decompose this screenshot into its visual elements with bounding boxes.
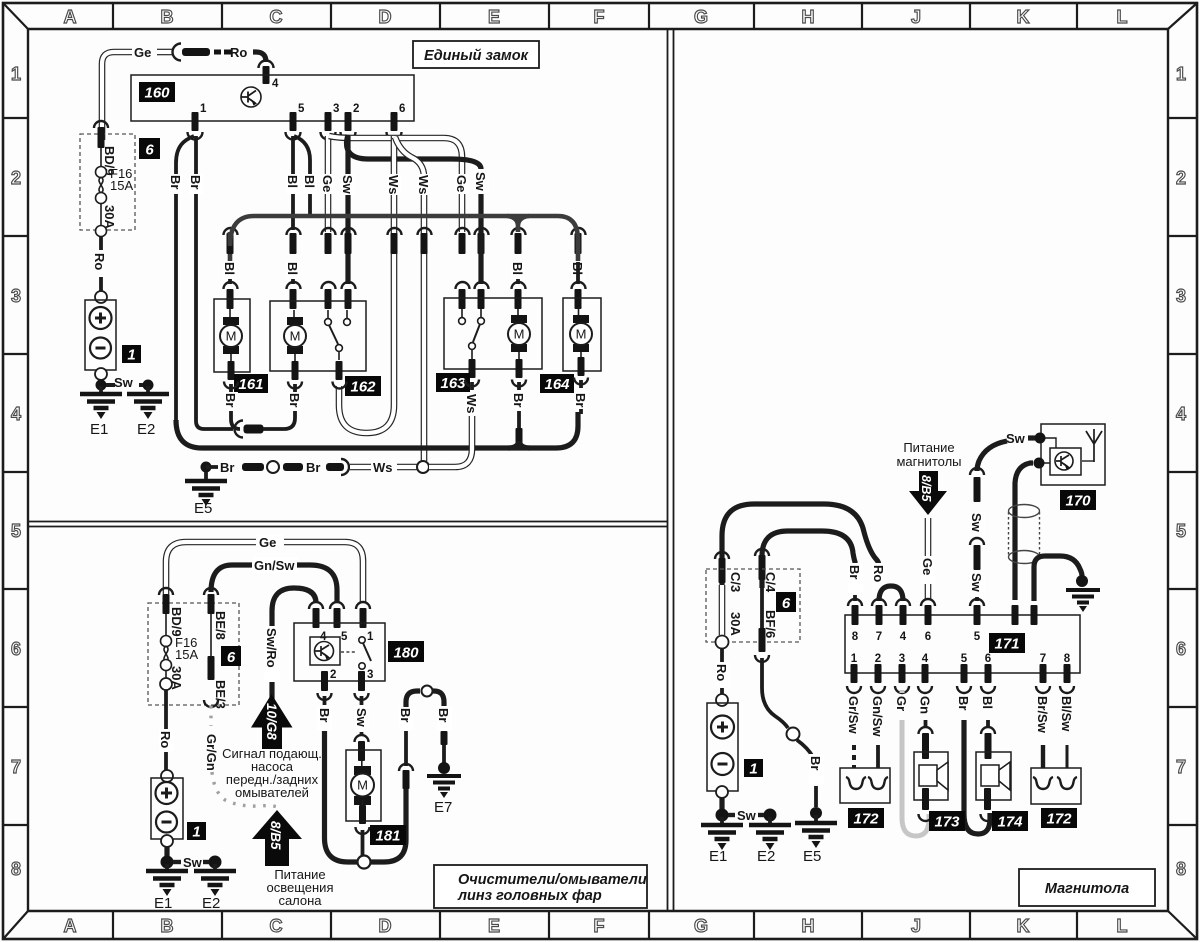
svg-text:164: 164 — [544, 376, 570, 393]
wire Br S-curve to E5 — [762, 658, 788, 728]
svg-text:8/B5: 8/B5 — [919, 475, 933, 502]
svg-text:G: G — [694, 7, 708, 27]
tag 1 — [744, 759, 763, 777]
ground E5 right panel — [810, 807, 822, 819]
svg-text:1: 1 — [1176, 64, 1186, 84]
svg-text:омывателей: омывателей — [235, 785, 309, 800]
title box Единый замок — [413, 41, 539, 68]
speaker plug 172 right — [1031, 768, 1081, 804]
tag 6 — [139, 138, 160, 159]
coax cylinder — [1009, 505, 1040, 564]
svg-text:E1: E1 — [90, 421, 108, 438]
horizontal panel divider left half (double) — [28, 522, 667, 527]
svg-text:Br: Br — [306, 460, 320, 475]
ground E2 right panel — [764, 809, 777, 822]
svg-text:J: J — [911, 916, 921, 936]
white wire to 163 common — [429, 416, 472, 467]
svg-text:4: 4 — [900, 631, 907, 643]
jumper pin7-pin4 — [879, 586, 903, 601]
wire Ws white straight from pin6 — [339, 136, 394, 433]
svg-text:Bl: Bl — [222, 262, 237, 275]
svg-text:Bl/Sw: Bl/Sw — [1059, 696, 1074, 732]
connector circle — [267, 461, 279, 473]
svg-text:Sw: Sw — [340, 175, 355, 195]
label row y177 — [169, 174, 183, 194]
wire pin2 — [876, 745, 880, 768]
inline connector arc+bar y429 — [235, 421, 244, 438]
wire C3 white — [719, 585, 726, 635]
svg-text:Gn/Sw: Gn/Sw — [870, 696, 885, 737]
svg-text:6: 6 — [227, 649, 236, 666]
svg-text:E5: E5 — [194, 500, 212, 517]
svg-text:6: 6 — [985, 653, 991, 665]
svg-text:Ge: Ge — [259, 535, 276, 550]
pin 5 — [290, 112, 297, 131]
svg-text:H: H — [802, 7, 815, 27]
connector arcs C/3 C/4 — [715, 552, 729, 559]
svg-text:Питание: Питание — [903, 440, 954, 455]
svg-text:Sw: Sw — [114, 375, 134, 390]
svg-text:Bl: Bl — [302, 175, 317, 188]
svg-text:F: F — [594, 7, 605, 27]
antenna unit 170 — [1041, 424, 1105, 485]
svg-text:M: M — [290, 329, 301, 344]
svg-text:Ws: Ws — [464, 394, 479, 414]
wire pin7 — [1041, 745, 1045, 768]
ground E1 top — [98, 380, 103, 386]
connector strip 171 — [845, 615, 1080, 673]
svg-text:BD/9: BD/9 — [169, 607, 184, 637]
svg-text:K: K — [1017, 916, 1030, 936]
wire pin1 dashed — [852, 745, 856, 768]
svg-text:Bl: Bl — [980, 696, 995, 709]
svg-text:B: B — [161, 916, 174, 936]
connector into fuse col — [94, 121, 108, 128]
svg-text:Br: Br — [511, 393, 526, 407]
svg-text:3: 3 — [367, 669, 373, 681]
svg-text:M: M — [576, 327, 587, 342]
svg-text:4: 4 — [272, 78, 279, 90]
svg-text:Gn/Sw: Gn/Sw — [254, 558, 295, 573]
svg-text:Ws: Ws — [386, 175, 401, 195]
box 164 — [563, 298, 601, 371]
wire Bl straight from pin5 — [291, 136, 295, 230]
svg-text:Очистители/омыватели: Очистители/омыватели — [458, 872, 647, 888]
svg-text:5: 5 — [1176, 521, 1186, 541]
svg-text:E: E — [488, 7, 500, 27]
motor M in 161 — [220, 317, 242, 354]
ground E7 — [438, 762, 450, 774]
wire Br left branch from pin1 — [176, 136, 202, 448]
svg-text:C/3: C/3 — [728, 572, 743, 592]
svg-text:5: 5 — [974, 631, 981, 643]
short stubs below arcs — [231, 380, 581, 392]
wire Sw from pin3 — [360, 696, 364, 705]
title box Очистители — [434, 865, 647, 908]
wire thin links into boxes — [230, 307, 581, 362]
connector arcs under motor boxes — [224, 382, 238, 389]
svg-text:2: 2 — [330, 669, 336, 681]
label Bl row y263 — [223, 261, 237, 280]
svg-text:A: A — [64, 7, 77, 27]
svg-text:1: 1 — [367, 631, 374, 643]
svg-text:7: 7 — [11, 757, 21, 777]
tag 161 — [234, 374, 268, 393]
white wire Ws horizontal — [350, 464, 371, 471]
right band row dividers — [1168, 118, 1197, 825]
pin 4 stub — [263, 66, 270, 84]
wire Ws white branch from pin6 — [395, 137, 424, 461]
svg-text:G: G — [694, 916, 708, 936]
wire Ge white branch from pin3 — [329, 136, 462, 232]
svg-text:2: 2 — [1176, 168, 1186, 188]
svg-text:Sw: Sw — [737, 808, 757, 823]
bottom band cell dividers — [113, 911, 1077, 939]
svg-text:Gr: Gr — [894, 696, 909, 711]
svg-text:A: A — [64, 916, 77, 936]
ground E1 bottom panel — [164, 847, 169, 858]
BE column connector — [204, 588, 218, 595]
svg-text:Br: Br — [168, 175, 183, 189]
svg-text:15A: 15A — [175, 647, 198, 662]
label Br row below boxes — [224, 392, 238, 411]
wire Sw/Ro thick U — [272, 588, 316, 702]
svg-text:180: 180 — [393, 645, 419, 662]
svg-text:Gn: Gn — [918, 696, 933, 714]
svg-text:E: E — [488, 916, 500, 936]
svg-text:Br/Sw: Br/Sw — [1035, 696, 1050, 734]
tag 6 — [776, 592, 796, 612]
svg-text:5: 5 — [961, 653, 968, 665]
svg-text:BE/8: BE/8 — [213, 611, 228, 640]
tag 181 — [370, 825, 406, 845]
svg-text:Br: Br — [220, 460, 234, 475]
vertical panel divider (double) — [668, 29, 674, 911]
fuse F16 bottom — [165, 614, 167, 636]
wire Bl branch from pin5 — [294, 136, 310, 217]
svg-text:линз головных фар: линз головных фар — [457, 888, 602, 904]
switch in 162 — [325, 319, 351, 360]
pin3 stub — [358, 671, 365, 691]
svg-text:6: 6 — [1176, 639, 1186, 659]
transistor sub-box in 180 — [310, 637, 340, 665]
svg-text:Ge: Ge — [454, 175, 469, 192]
pin 1 — [192, 112, 199, 131]
battery 1 top panel — [85, 291, 116, 380]
wire 164 Br drop — [579, 409, 583, 414]
motor M in 164 — [570, 315, 592, 352]
svg-text:Ro: Ro — [92, 253, 107, 270]
ground E1 right panel — [719, 798, 724, 810]
svg-text:2: 2 — [875, 653, 881, 665]
thick wire to radio ground — [1034, 556, 1082, 601]
wire thin links 181 — [361, 760, 364, 806]
main Br bus thick y448 — [176, 412, 578, 448]
svg-text:Br: Br — [287, 393, 302, 407]
svg-text:3: 3 — [333, 103, 339, 115]
svg-text:Ge: Ge — [320, 175, 335, 192]
svg-text:171: 171 — [994, 636, 1019, 653]
connector — [970, 538, 984, 545]
svg-text:5: 5 — [341, 631, 348, 643]
wire Ro down — [99, 236, 103, 250]
ground E2 top — [143, 380, 154, 391]
svg-text:1: 1 — [749, 761, 757, 778]
big loop Ro (outer) from C/3 to pin7 — [722, 504, 879, 588]
svg-text:160: 160 — [144, 85, 170, 102]
svg-text:181: 181 — [375, 828, 400, 845]
wire Ge white top loop — [166, 542, 256, 594]
connector arc pin4 — [259, 61, 274, 68]
svg-text:Br: Br — [573, 393, 588, 407]
wire Ge white — [925, 518, 932, 599]
svg-text:Ge: Ge — [134, 45, 151, 60]
wire Ro — [164, 690, 168, 729]
battery 1 bottom panel — [151, 770, 183, 847]
svg-text:Br: Br — [956, 696, 971, 710]
pin 3 — [325, 112, 332, 131]
svg-text:4: 4 — [11, 404, 21, 424]
svg-text:M: M — [514, 327, 525, 342]
speaker 173 — [914, 752, 948, 800]
svg-text:1: 1 — [127, 347, 135, 364]
wire Ro down — [720, 649, 724, 662]
wire Gn/Sw thick — [211, 565, 252, 592]
svg-text:M: M — [226, 329, 237, 344]
svg-text:Br: Br — [188, 175, 203, 189]
svg-text:E1: E1 — [154, 895, 172, 912]
svg-text:D: D — [379, 916, 392, 936]
svg-text:6: 6 — [145, 142, 154, 159]
tag 163 — [436, 373, 470, 392]
tag 1 — [122, 345, 141, 363]
inline connector on x406 — [399, 764, 413, 771]
svg-text:Ws: Ws — [416, 175, 431, 195]
switch in 180 — [359, 637, 365, 643]
junction circle under 181 — [358, 856, 371, 869]
inline connectors row y231 — [224, 228, 586, 254]
switch in 163 — [459, 318, 485, 360]
svg-text:K: K — [1017, 7, 1030, 27]
wire pin8 — [1066, 745, 1069, 768]
wire Br pin5 thick — [964, 720, 990, 834]
svg-text:Sw: Sw — [969, 573, 984, 593]
svg-text:172: 172 — [1046, 811, 1072, 828]
svg-text:C: C — [270, 7, 283, 27]
svg-text:10/G8: 10/G8 — [264, 703, 279, 740]
pin2 stub — [321, 671, 328, 691]
svg-text:M: M — [357, 778, 368, 793]
svg-text:1: 1 — [851, 653, 858, 665]
wire dashes — [214, 50, 221, 55]
fuse dashed box bottom panel — [148, 603, 239, 705]
wires from labels into boxes y280-300 — [230, 262, 578, 284]
connectors into box tops — [224, 282, 586, 309]
fuse dashed box top panel — [80, 134, 135, 230]
junction circle x423 — [417, 461, 429, 473]
wire Bl pin6 — [986, 720, 990, 726]
wire 163 Br drop with stub — [517, 411, 521, 430]
svg-text:F: F — [594, 916, 605, 936]
wire Ge white right part — [284, 542, 363, 603]
svg-text:8: 8 — [11, 859, 21, 879]
wire Br straight from pin1 — [196, 136, 233, 429]
top pins 171 — [848, 599, 1038, 643]
fuse circle — [716, 636, 729, 649]
transistor sub-box 170 — [1050, 448, 1081, 475]
svg-text:5: 5 — [298, 103, 305, 115]
svg-text:173: 173 — [934, 814, 960, 831]
svg-text:162: 162 — [350, 379, 376, 396]
arrow 8/B5 bottom — [252, 810, 302, 839]
bus Bl horizontal y216 — [230, 216, 578, 262]
tag 160 — [139, 82, 175, 102]
wire — [157, 49, 172, 56]
arch with circle to E7 — [406, 691, 420, 707]
ground E5 — [204, 472, 208, 479]
svg-text:174: 174 — [997, 814, 1023, 831]
arrow 10/G8 — [251, 694, 293, 728]
motor M in 163 — [508, 315, 530, 352]
svg-text:Ge: Ge — [920, 558, 935, 575]
svg-text:3: 3 — [899, 653, 905, 665]
thick wire from 170 pin2 down — [1015, 463, 1033, 600]
wire Sw thick branch from pin2 — [347, 135, 481, 169]
big loop Br (inner) from C/4 to pin8 — [762, 531, 855, 588]
svg-text:Br: Br — [317, 708, 332, 722]
tag 180 — [388, 641, 424, 662]
svg-text:Bl: Bl — [510, 262, 525, 275]
svg-text:8: 8 — [852, 631, 859, 643]
tag 164 — [540, 374, 574, 393]
svg-text:2: 2 — [11, 168, 21, 188]
svg-text:C: C — [270, 916, 283, 936]
svg-text:1: 1 — [200, 103, 207, 115]
wire Ro (thick) — [253, 52, 266, 62]
svg-text:170: 170 — [1065, 493, 1091, 510]
svg-text:8: 8 — [1064, 653, 1071, 665]
svg-text:Sw/Ro: Sw/Ro — [264, 628, 279, 668]
svg-text:7: 7 — [1176, 757, 1186, 777]
wire C4 black — [760, 583, 764, 630]
tag 6 — [221, 646, 241, 666]
dashed fuse box right panel — [706, 569, 800, 642]
svg-text:E5: E5 — [803, 848, 821, 865]
ground E5 junction dot — [201, 462, 212, 473]
svg-text:Sw: Sw — [473, 172, 488, 192]
bus drop x518 — [507, 216, 529, 232]
top band cell dividers — [113, 3, 1077, 29]
pin 6 — [391, 112, 398, 131]
svg-text:15A: 15A — [110, 178, 133, 193]
svg-text:1: 1 — [192, 824, 200, 841]
svg-text:E2: E2 — [757, 848, 775, 865]
motor box 181 — [346, 750, 381, 821]
wire Gn pin4 — [924, 720, 928, 726]
tag 162 — [345, 376, 381, 396]
wire Sw vertical x481 lower — [478, 194, 483, 284]
speaker 174 — [976, 752, 1011, 800]
tag 1 — [187, 822, 206, 840]
op-unit U160 box — [131, 75, 414, 121]
antenna symbol — [1086, 429, 1102, 462]
svg-text:магнитолы: магнитолы — [896, 454, 961, 469]
pins 170 dots — [1035, 433, 1046, 444]
svg-text:3: 3 — [1176, 286, 1186, 306]
svg-text:Sw: Sw — [1006, 431, 1026, 446]
svg-text:Sw: Sw — [183, 855, 203, 870]
connector bar — [182, 48, 210, 56]
svg-text:Ro: Ro — [158, 731, 173, 748]
svg-text:Br: Br — [398, 708, 413, 722]
svg-text:E2: E2 — [137, 421, 155, 438]
svg-text:3: 3 — [11, 286, 21, 306]
svg-text:L: L — [1117, 7, 1128, 27]
transistor symbol in 160 — [241, 87, 261, 107]
battery 1 right panel — [707, 694, 738, 798]
fuse column connector — [159, 588, 173, 595]
svg-text:B: B — [161, 7, 174, 27]
svg-text:L: L — [1117, 916, 1128, 936]
white wire — [397, 464, 417, 471]
svg-text:4: 4 — [1176, 404, 1186, 424]
svg-text:6: 6 — [925, 631, 931, 643]
svg-text:Ro: Ro — [230, 45, 247, 60]
svg-text:Br: Br — [808, 756, 823, 770]
connector bar — [242, 463, 264, 471]
pin 2 — [345, 112, 352, 131]
wire Ge (top row, white) — [102, 52, 132, 140]
ground E2 bottom panel — [209, 856, 222, 869]
svg-text:8/B5: 8/B5 — [268, 821, 283, 850]
svg-text:Gr/Gn: Gr/Gn — [204, 734, 219, 771]
svg-text:Bl: Bl — [285, 175, 300, 188]
box 163 — [444, 298, 542, 369]
title box Магнитола — [1019, 869, 1155, 906]
left band row dividers — [3, 118, 28, 825]
svg-text:4: 4 — [922, 653, 929, 665]
svg-text:Ro: Ro — [714, 664, 729, 681]
svg-text:30A: 30A — [728, 612, 743, 636]
wire Bl drop 230 — [228, 232, 233, 262]
svg-text:7: 7 — [1040, 653, 1046, 665]
wire to 162 motor — [263, 411, 295, 429]
connector arcs into 180 — [309, 602, 323, 609]
svg-text:161: 161 — [238, 376, 263, 393]
svg-text:Br: Br — [436, 708, 451, 722]
box 162 — [270, 301, 366, 371]
svg-text:E2: E2 — [202, 895, 220, 912]
inline stub — [759, 628, 766, 652]
wire Sw thick straight from pin2 — [345, 136, 350, 284]
motor M in 162 — [284, 317, 306, 354]
svg-text:5: 5 — [11, 521, 21, 541]
svg-text:J: J — [911, 7, 921, 27]
connector arc — [173, 44, 182, 61]
svg-text:Единый замок: Единый замок — [424, 48, 529, 64]
svg-text:Br: Br — [847, 565, 862, 579]
svg-text:E1: E1 — [709, 848, 727, 865]
connector — [970, 468, 984, 475]
pin stubs bottom 161/162 — [228, 361, 235, 380]
svg-text:Sw: Sw — [969, 513, 984, 533]
dashed link — [341, 651, 357, 653]
svg-text:Ws: Ws — [373, 460, 393, 475]
svg-text:1: 1 — [11, 64, 21, 84]
svg-text:Sw: Sw — [354, 708, 369, 728]
svg-text:D: D — [379, 7, 392, 27]
dotted wire Gr/Gn — [209, 706, 212, 726]
